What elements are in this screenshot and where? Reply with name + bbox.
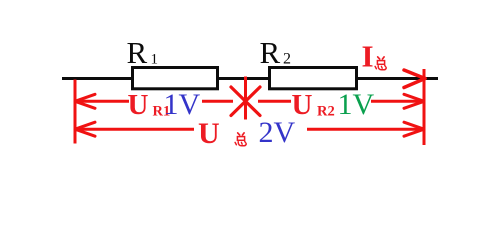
svg-text:2: 2 [283,51,291,68]
svg-text:U: U [128,89,149,121]
label U_R1 [128,89,171,121]
wire : main horizontal conductor [62,77,438,80]
arrowhead right of U_R2 dimension [404,94,424,108]
arrowhead left of U_R1 dimension [75,94,95,108]
wire : U_R1 dimension line [75,100,233,103]
svg-text:R2: R2 [317,104,335,120]
label I zong (current) [362,39,387,74]
label R2 [260,35,292,70]
junction : double arrowhead star at middle [231,87,260,116]
svg-text:R: R [260,35,281,70]
node C : right extension line [423,69,426,145]
label U_R2 [292,89,335,121]
wire : U_R2 dimension line [258,100,424,103]
svg-text:1: 1 [151,52,159,68]
arrowhead left of U total dimension [75,122,95,136]
value 1V (blue) for U_R1 [164,88,201,121]
svg-text:1V: 1V [164,88,201,121]
svg-text:2V: 2V [259,116,296,149]
arrowhead right of U total dimension [404,122,424,136]
label U zong (total voltage) [198,117,246,150]
svg-text:U: U [198,117,220,150]
node B : middle extension line [244,77,247,120]
current arrow I zong head on wire [404,70,425,88]
wire : U total dimension line [75,128,424,131]
label R1 [127,35,159,70]
value 1V (green) for U_R2 [338,88,375,121]
svg-text:I: I [362,39,374,74]
resistor R2 [270,68,357,89]
svg-text:R: R [127,35,148,70]
svg-text:1V: 1V [338,88,375,121]
node A : left extension line [74,80,77,144]
resistor R1 [133,68,218,89]
value 2V (blue) for U total [259,116,296,149]
